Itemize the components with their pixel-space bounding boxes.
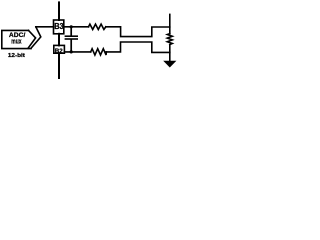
svg-text:B3: B3 — [54, 21, 64, 31]
resistor R2 — [91, 49, 107, 55]
ADC mux outer chevron — [31, 27, 41, 48]
wire B2 to R2 — [64, 51, 90, 53]
label B2 — [55, 48, 64, 55]
wire R2 to rail with jog — [106, 42, 170, 52]
capacitor C1 top lead — [70, 27, 72, 36]
svg-text:mux: mux — [11, 36, 21, 45]
stub above B3 — [58, 2, 60, 20]
wire mux to pin B3 — [36, 26, 54, 28]
stub below B2 — [58, 53, 60, 78]
label ADC/ — [9, 32, 26, 39]
capacitor C1 bottom lead — [70, 40, 72, 52]
node cap top junction — [70, 25, 73, 28]
svg-text:12-bit: 12-bit — [8, 53, 25, 59]
wire B3 to R1 — [64, 26, 89, 28]
resistor R3 vertical — [167, 34, 172, 45]
label B3 — [54, 21, 64, 31]
resistor R1 — [89, 24, 106, 29]
capacitor C1 plates — [65, 35, 77, 37]
rail top stub — [169, 14, 171, 33]
ground arrow — [163, 61, 176, 68]
label mux — [11, 36, 21, 45]
node cap bottom junction — [70, 50, 73, 53]
pin box B2 — [54, 45, 65, 53]
rail below resistor — [169, 45, 171, 61]
pin box B3 — [54, 20, 64, 34]
ADC mux inner chevron — [28, 30, 36, 48]
ADC mux box body — [2, 30, 31, 48]
stub B3 to B2 — [58, 34, 60, 46]
wire R1 to rail with jog — [106, 27, 170, 37]
label 12-bit — [8, 53, 25, 59]
